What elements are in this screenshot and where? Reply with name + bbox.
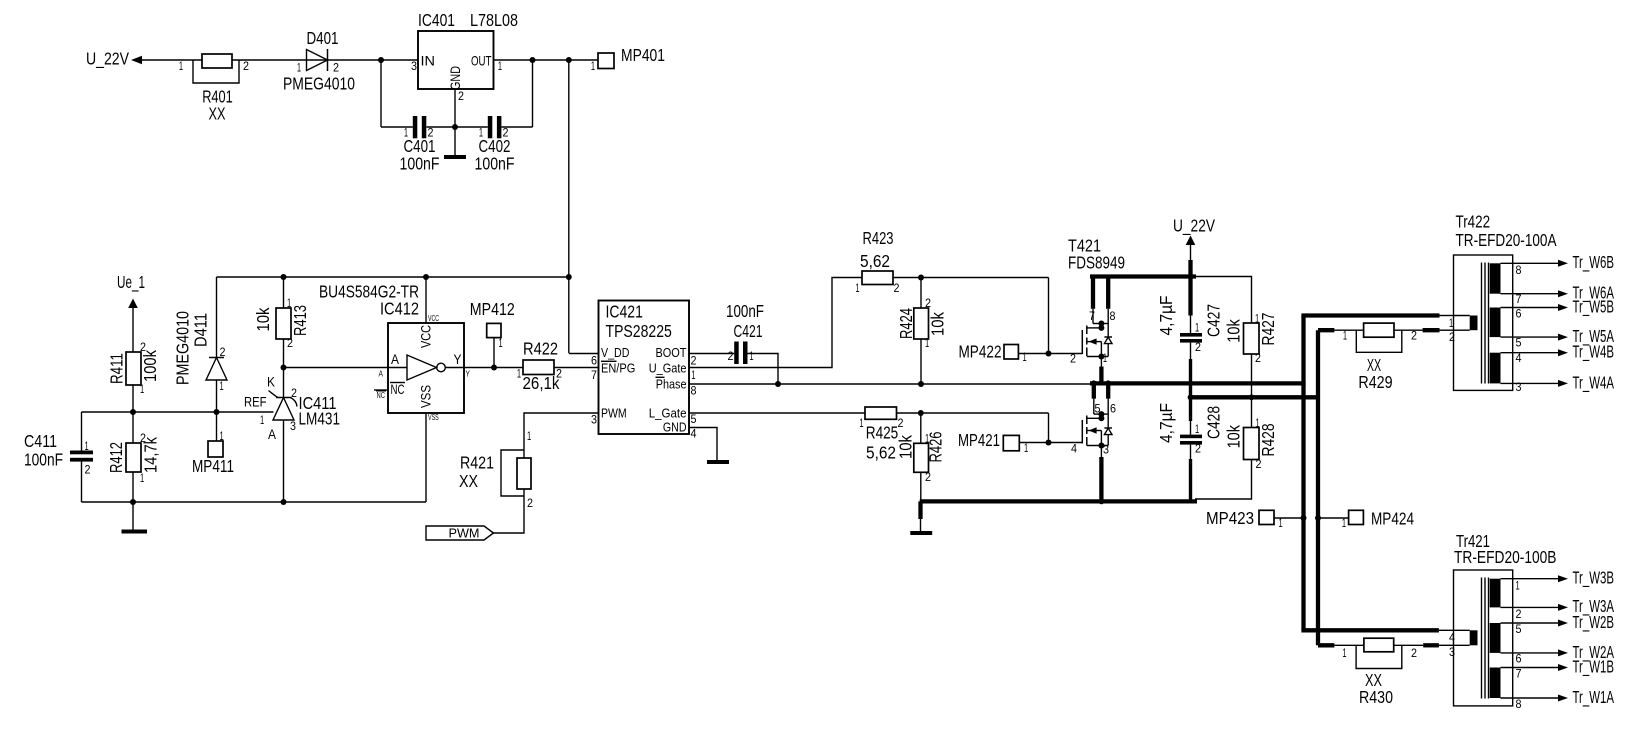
svg-text:1: 1 [499, 336, 503, 350]
wire lower FET source to bottom rail [1100, 446, 1102, 458]
svg-text:1: 1 [1449, 316, 1453, 330]
svg-text:1: 1 [527, 429, 531, 443]
svg-text:Tr_W1B: Tr_W1B [1573, 657, 1615, 678]
wire inverter output Y [464, 367, 523, 369]
wire Tr422 pin6 arrow Tr_W5B [1501, 297, 1615, 318]
measuring point MP401 [591, 45, 665, 73]
svg-text:D401: D401 [307, 28, 339, 48]
wire R423 to upper gate branch [893, 277, 1049, 279]
wire IC421 PWM pin to R421 [524, 413, 599, 450]
svg-text:Tr_W2B: Tr_W2B [1573, 612, 1615, 633]
wire BOOT pin 2 to C421 [689, 353, 734, 355]
svg-text:2: 2 [691, 354, 697, 368]
op-amp U1 gate driver IC421 TPS28225 [591, 301, 697, 441]
svg-text:2: 2 [287, 336, 293, 350]
svg-text:R421: R421 [460, 453, 494, 473]
transformer Tr422 TR-EFD20-100A [1449, 212, 1557, 395]
wire Tr422 pin1 feed [1301, 313, 1439, 317]
svg-text:Tr422: Tr422 [1456, 212, 1491, 232]
svg-text:R424: R424 [896, 308, 916, 339]
svg-text:8: 8 [691, 384, 697, 398]
svg-text:100nF: 100nF [726, 301, 764, 321]
svg-text:3: 3 [1103, 443, 1109, 457]
resistor R422 26,1k [517, 339, 562, 394]
svg-text:4,7µF: 4,7µF [1156, 403, 1176, 443]
node junction mid rail / R427 R428 [1249, 394, 1255, 400]
svg-text:1: 1 [85, 439, 89, 453]
svg-text:1: 1 [1195, 321, 1199, 335]
capacitor C402 100nF [475, 116, 515, 174]
measuring point MP412 [470, 299, 515, 368]
wire Tr422 pin7 arrow Tr_W6A [1501, 283, 1615, 304]
svg-text:2: 2 [220, 345, 226, 359]
svg-text:K: K [267, 374, 276, 390]
node junction R424 / Phase [918, 381, 924, 387]
svg-text:U_Gate: U_Gate [649, 361, 687, 376]
measuring point MP411 [192, 412, 234, 476]
svg-text:26,1k: 26,1k [523, 373, 560, 393]
svg-text:2: 2 [894, 281, 900, 295]
svg-text:TPS28225: TPS28225 [606, 321, 672, 341]
svg-text:3: 3 [411, 59, 417, 73]
wire bottom source thick rail [920, 499, 1197, 503]
wire MP422 to upper FET gate [1019, 353, 1083, 355]
wire top supply rail of reference section [217, 276, 569, 278]
ground symbol below IC401 [444, 155, 466, 159]
capacitor C428 4,7uF [1156, 397, 1224, 501]
node junction REF rail / D411 / MP411 [214, 409, 220, 415]
svg-text:Tr_W4A: Tr_W4A [1573, 373, 1615, 394]
wire phase bus vertical A [1301, 316, 1305, 631]
node junction R413 / inverter input / LM431 K [281, 365, 287, 371]
svg-text:C428: C428 [1204, 406, 1224, 439]
svg-text:1: 1 [1256, 416, 1260, 430]
svg-text:10k: 10k [253, 307, 273, 331]
svg-text:1: 1 [1342, 646, 1346, 660]
svg-text:100nF: 100nF [475, 154, 515, 174]
svg-text:1: 1 [859, 416, 863, 430]
svg-text:VSS: VSS [418, 385, 434, 408]
wire Tr422 pin5 arrow Tr_W5A [1501, 326, 1615, 347]
wire Phase pin 8 [689, 383, 1092, 385]
capacitor C427 4,7uF [1156, 296, 1224, 355]
wire R412 top [132, 412, 134, 443]
wire U_22V to D401 anode [142, 59, 418, 61]
node junction Y / MP412 [491, 365, 497, 371]
svg-text:XX: XX [209, 104, 226, 124]
wire bottom rail [82, 501, 427, 503]
svg-text:8: 8 [1516, 263, 1522, 277]
svg-text:2: 2 [333, 61, 339, 75]
svg-text:2: 2 [728, 349, 734, 363]
wire ground stub below R426 [918, 501, 922, 519]
resistor R424 10k [896, 278, 948, 385]
svg-text:1: 1 [1343, 329, 1347, 343]
svg-text:1: 1 [140, 471, 144, 485]
svg-text:5: 5 [1516, 622, 1522, 636]
svg-text:R428: R428 [1258, 424, 1278, 457]
svg-text:Y: Y [454, 351, 463, 367]
svg-text:1: 1 [498, 59, 502, 73]
wire IC401 GND pin to ground [454, 89, 456, 155]
svg-text:VCC: VCC [428, 314, 439, 323]
wire Phase thick rail [1090, 381, 1306, 385]
svg-text:GND: GND [447, 66, 463, 90]
svg-text:5,62: 5,62 [866, 443, 896, 463]
resistor R425 5,62 [859, 407, 903, 463]
svg-text:3: 3 [591, 413, 597, 427]
wire L_Gate pin 5 [689, 412, 865, 414]
transistor Q1 T421 FDS8949 upper FET [1068, 236, 1125, 366]
node junction MP421 / gate [1046, 440, 1052, 446]
svg-text:L78L08: L78L08 [470, 10, 518, 30]
wire Tr421 pin2 arrow Tr_W3A [1501, 596, 1615, 617]
wire MP421 to lower FET gate [1019, 442, 1082, 444]
node junction R423/R424 [918, 275, 924, 281]
svg-text:Tr_W6B: Tr_W6B [1573, 252, 1615, 273]
svg-text:2: 2 [1516, 607, 1522, 621]
svg-text:A: A [379, 370, 384, 379]
wire upper gate drop [1048, 278, 1050, 354]
svg-text:MP423: MP423 [1206, 508, 1254, 528]
node junction C421 / Phase [775, 381, 781, 387]
svg-text:VSS: VSS [428, 413, 439, 422]
wire V_DD riser from OUT node down to IC421 [568, 60, 570, 353]
wire V_DD pin 6 [569, 353, 599, 355]
svg-text:100nF: 100nF [24, 450, 63, 470]
node junction R425/R426 [918, 410, 924, 416]
svg-text:R411: R411 [107, 353, 127, 384]
wire IC401 OUT to MP401 [494, 59, 599, 61]
svg-text:4: 4 [1071, 442, 1077, 456]
svg-text:2: 2 [1255, 351, 1261, 365]
wire upper FET source to phase rail [1100, 357, 1102, 367]
svg-text:TR-EFD20-100B: TR-EFD20-100B [1454, 547, 1557, 567]
wire R428 bottom to source rail [1195, 460, 1252, 500]
svg-text:U_22V: U_22V [1173, 216, 1215, 237]
wire U_22V thin link to R427 [1196, 277, 1252, 324]
svg-text:10k: 10k [1224, 425, 1244, 449]
svg-text:NC: NC [391, 381, 405, 397]
node junction cap rail / GND pin [452, 124, 458, 130]
wire Ue_1 to R411 [132, 308, 134, 352]
svg-text:1: 1 [925, 336, 929, 350]
svg-text:8: 8 [1516, 697, 1522, 711]
wire R411 to REF rail [132, 385, 134, 412]
diode D401 PMEG4010 [283, 28, 355, 94]
svg-text:1: 1 [1195, 422, 1199, 436]
svg-text:5: 5 [691, 412, 697, 426]
svg-text:VCC: VCC [418, 325, 434, 348]
svg-text:C411: C411 [24, 431, 57, 451]
svg-text:EN/PG: EN/PG [601, 361, 635, 376]
op-amp IC401 L78L08 regulator [411, 10, 518, 103]
resistor R413 10k [253, 277, 310, 398]
svg-text:V_DD: V_DD [601, 345, 629, 360]
wire REF rail [82, 411, 274, 413]
svg-text:1: 1 [517, 367, 521, 381]
svg-text:A: A [268, 426, 277, 442]
node junction rail / R413 [281, 274, 287, 280]
svg-text:3: 3 [1516, 380, 1522, 394]
resistor R421 XX [459, 429, 533, 510]
svg-text:C427: C427 [1204, 304, 1224, 337]
svg-text:IC421: IC421 [606, 302, 643, 322]
svg-text:U_22V: U_22V [86, 49, 129, 70]
svg-text:4,7µF: 4,7µF [1156, 296, 1176, 336]
wire Tr421 pin7 arrow Tr_W1B [1501, 657, 1615, 678]
svg-text:2: 2 [1195, 340, 1201, 354]
svg-text:2: 2 [925, 470, 931, 484]
shunt reference IC411 LM431 [244, 374, 340, 503]
wire ground stub [132, 502, 134, 531]
resistor R411 100k [107, 340, 161, 396]
measuring point MP424 [1315, 509, 1414, 531]
wire R412 bottom [132, 472, 134, 502]
node junction bottom rail / R412 [130, 499, 136, 505]
wire cap rail [381, 126, 533, 128]
node junction OUT/V_DD riser [566, 57, 572, 63]
wire to inverter input A [284, 367, 408, 369]
transformer Tr421 TR-EFD20-100B [1449, 531, 1557, 711]
wire Tr421 pin4 feed [1301, 628, 1439, 632]
svg-text:MP411: MP411 [192, 456, 234, 476]
wire GND pin 4 [689, 428, 717, 461]
svg-text:1: 1 [855, 281, 859, 295]
ground symbol below R426 [910, 531, 932, 535]
wire C402 branch down [532, 60, 534, 127]
svg-text:MP422: MP422 [959, 342, 1002, 362]
svg-text:2: 2 [1411, 646, 1417, 660]
svg-text:6: 6 [1110, 402, 1116, 416]
resistor R426 10k [896, 413, 946, 501]
svg-text:2: 2 [898, 416, 904, 430]
wire Tr421 pin5 arrow Tr_W2B [1501, 612, 1615, 633]
svg-text:PMEG4010: PMEG4010 [283, 74, 355, 94]
svg-text:R413: R413 [290, 305, 310, 336]
svg-text:IN: IN [421, 53, 436, 69]
svg-text:1: 1 [179, 59, 183, 73]
node junction R411/R412/C411/REF [130, 409, 136, 415]
svg-text:Tr_W4B: Tr_W4B [1573, 342, 1615, 363]
wire input node down to cap rail [380, 60, 382, 127]
svg-text:R425: R425 [866, 423, 899, 443]
svg-text:XX: XX [459, 471, 478, 491]
transistor Q2 T421 FDS8949 lower FET [1071, 380, 1116, 456]
net flag PWM [426, 526, 494, 541]
svg-text:1: 1 [925, 432, 929, 446]
measuring point MP422 [959, 342, 1027, 365]
svg-text:4: 4 [691, 427, 697, 441]
ground symbol below R412 [122, 530, 148, 534]
wire C421 to Phase [748, 354, 779, 385]
svg-text:2: 2 [458, 89, 464, 103]
measuring point MP423 [1206, 508, 1307, 530]
svg-text:LM431: LM431 [299, 409, 341, 429]
ground symbol below IC421 [707, 460, 729, 464]
wire R422 to IC421 EN/PG [554, 367, 599, 369]
svg-text:7: 7 [1516, 667, 1522, 681]
svg-text:C421: C421 [734, 321, 763, 341]
svg-text:GND: GND [663, 420, 687, 435]
resistor R423 5,62 [855, 228, 899, 295]
svg-text:R423: R423 [863, 228, 894, 248]
svg-text:10k: 10k [1224, 319, 1244, 343]
svg-text:Tr_W3B: Tr_W3B [1573, 568, 1615, 589]
svg-text:1: 1 [1024, 441, 1028, 455]
svg-text:100k: 100k [140, 350, 160, 382]
svg-text:BOOT: BOOT [656, 345, 687, 360]
svg-text:TR-EFD20-100A: TR-EFD20-100A [1456, 230, 1557, 250]
measuring point MP421 [958, 430, 1028, 455]
svg-text:2: 2 [85, 463, 91, 477]
svg-text:2: 2 [1256, 457, 1262, 471]
svg-text:2: 2 [1195, 442, 1201, 456]
resistor R412 14,7k [106, 431, 161, 485]
svg-text:1: 1 [220, 379, 224, 393]
wire U_Gate pin 1 riser to R423 [689, 278, 862, 368]
svg-text:MP424: MP424 [1371, 509, 1414, 529]
resistor R427 10k [1224, 312, 1278, 366]
svg-text:Ue_1: Ue_1 [117, 272, 145, 293]
svg-text:2: 2 [527, 496, 533, 510]
svg-text:1: 1 [220, 429, 224, 443]
svg-text:L_Gate: L_Gate [649, 406, 687, 421]
svg-text:D411: D411 [191, 313, 211, 347]
svg-text:1: 1 [260, 413, 264, 427]
svg-text:MP401: MP401 [621, 45, 665, 65]
node junction MP422 / gate [1046, 351, 1052, 357]
svg-text:PWM: PWM [601, 406, 627, 421]
svg-text:Tr_W1A: Tr_W1A [1573, 687, 1615, 708]
svg-text:REF: REF [244, 394, 267, 410]
svg-text:R412: R412 [106, 442, 126, 473]
svg-text:3: 3 [1449, 645, 1455, 659]
svg-text:1: 1 [140, 382, 144, 396]
node junction bottom rail / LM431 anode [281, 499, 287, 505]
svg-text:Tr_W5B: Tr_W5B [1573, 297, 1615, 318]
svg-text:2: 2 [556, 367, 562, 381]
svg-text:PMEG4010: PMEG4010 [173, 311, 193, 385]
svg-text:2: 2 [243, 59, 249, 73]
svg-text:1: 1 [1516, 579, 1520, 593]
wire R425 to lower gate branch [897, 412, 1049, 414]
svg-text:4: 4 [1449, 631, 1455, 645]
resistor R428 10k [1224, 397, 1278, 471]
wire Tr422 pin2 via R429 [1318, 328, 1334, 332]
svg-text:NC: NC [377, 391, 386, 400]
resistor R430 XX [1342, 638, 1417, 707]
net Ue_1 (input flag) [117, 272, 145, 308]
net U_22V (right supply flag) [1173, 216, 1215, 263]
svg-text:MP412: MP412 [470, 299, 515, 319]
wire U_22V thick rail to FET drains [1090, 274, 1196, 278]
node junction rail / IC412 VCC [423, 274, 429, 280]
wire Tr421 pin1 arrow Tr_W3B [1501, 568, 1615, 589]
svg-text:2: 2 [1411, 329, 1417, 343]
capacitor C401 100nF [400, 116, 440, 174]
svg-text:100nF: 100nF [400, 154, 440, 174]
svg-text:10k: 10k [928, 312, 948, 336]
svg-text:7: 7 [1089, 309, 1095, 323]
node junction rail / V_DD riser [566, 274, 572, 280]
svg-text:1: 1 [287, 296, 291, 310]
svg-text:10k: 10k [896, 435, 916, 459]
wire R427 bottom to mid rail [1251, 354, 1253, 397]
svg-text:Y: Y [466, 370, 471, 379]
svg-text:1: 1 [1023, 350, 1027, 364]
svg-text:PWM: PWM [449, 526, 480, 541]
svg-text:Phase: Phase [656, 377, 687, 392]
svg-text:R427: R427 [1258, 313, 1278, 346]
wire mid rail (cap divider) [1189, 395, 1318, 399]
capacitor C421 100nF (bootstrap) [726, 301, 764, 364]
capacitor C411 100nF [24, 412, 93, 502]
svg-text:2: 2 [925, 296, 931, 310]
svg-text:1: 1 [1103, 351, 1107, 365]
svg-text:FDS8949: FDS8949 [1068, 253, 1125, 273]
svg-text:7: 7 [591, 368, 597, 382]
diode D411 PMEG4010 (protection diode) [173, 277, 228, 412]
svg-text:2: 2 [291, 386, 297, 400]
net U_22V (left supply flag) [86, 49, 142, 70]
wire lower gate drop [1048, 413, 1050, 443]
svg-text:5,62: 5,62 [860, 251, 890, 271]
wire Tr422 pin3 arrow Tr_W4A [1501, 373, 1615, 394]
svg-text:1: 1 [1255, 312, 1259, 326]
inverter IC412 BU4S584G2-TR [319, 277, 471, 502]
svg-text:2: 2 [140, 340, 146, 354]
svg-text:1: 1 [1342, 516, 1346, 530]
wire Tr421 pin6 arrow Tr_W2A [1501, 642, 1615, 663]
resistor R401 [179, 54, 249, 124]
wire return bus vertical B [1316, 330, 1320, 645]
node junction OUT/C402 [530, 57, 536, 63]
svg-text:1: 1 [749, 349, 753, 363]
wire C427 bottom crossing phase to mid rail [1190, 343, 1192, 359]
wire Tr422 pin8 arrow Tr_W6B [1501, 252, 1615, 273]
wire Tr421 pin8 arrow Tr_W1A [1501, 687, 1615, 708]
resistor R429 XX [1343, 323, 1417, 392]
svg-text:1: 1 [691, 368, 695, 382]
svg-text:A: A [391, 351, 400, 367]
node junction mid rail / C427 [1188, 394, 1194, 400]
svg-text:2: 2 [140, 431, 146, 445]
svg-text:6: 6 [591, 354, 597, 368]
wire U_22V thick drop to C427 [1188, 260, 1192, 316]
node junction at D401/IC401 input [378, 57, 384, 63]
svg-text:8: 8 [1110, 309, 1116, 323]
svg-text:2: 2 [1070, 352, 1076, 366]
svg-text:R430: R430 [1359, 687, 1393, 707]
wire R421 to PWM flag [494, 496, 525, 533]
wire Tr422 pin4 arrow Tr_W4B [1501, 342, 1615, 363]
svg-text:3: 3 [290, 419, 296, 433]
svg-text:1: 1 [591, 59, 595, 73]
wire Tr421 pin3 via R430 [1318, 643, 1334, 647]
svg-text:IC412: IC412 [380, 299, 419, 319]
svg-text:R422: R422 [523, 339, 558, 359]
svg-text:R429: R429 [1358, 372, 1392, 392]
svg-text:6: 6 [1516, 307, 1522, 321]
svg-text:2: 2 [1449, 330, 1455, 344]
svg-text:IC401: IC401 [418, 10, 455, 30]
svg-text:1: 1 [297, 61, 301, 75]
svg-text:OUT: OUT [471, 53, 492, 69]
svg-text:MP421: MP421 [958, 430, 1000, 450]
node junction source rail [1099, 499, 1105, 505]
